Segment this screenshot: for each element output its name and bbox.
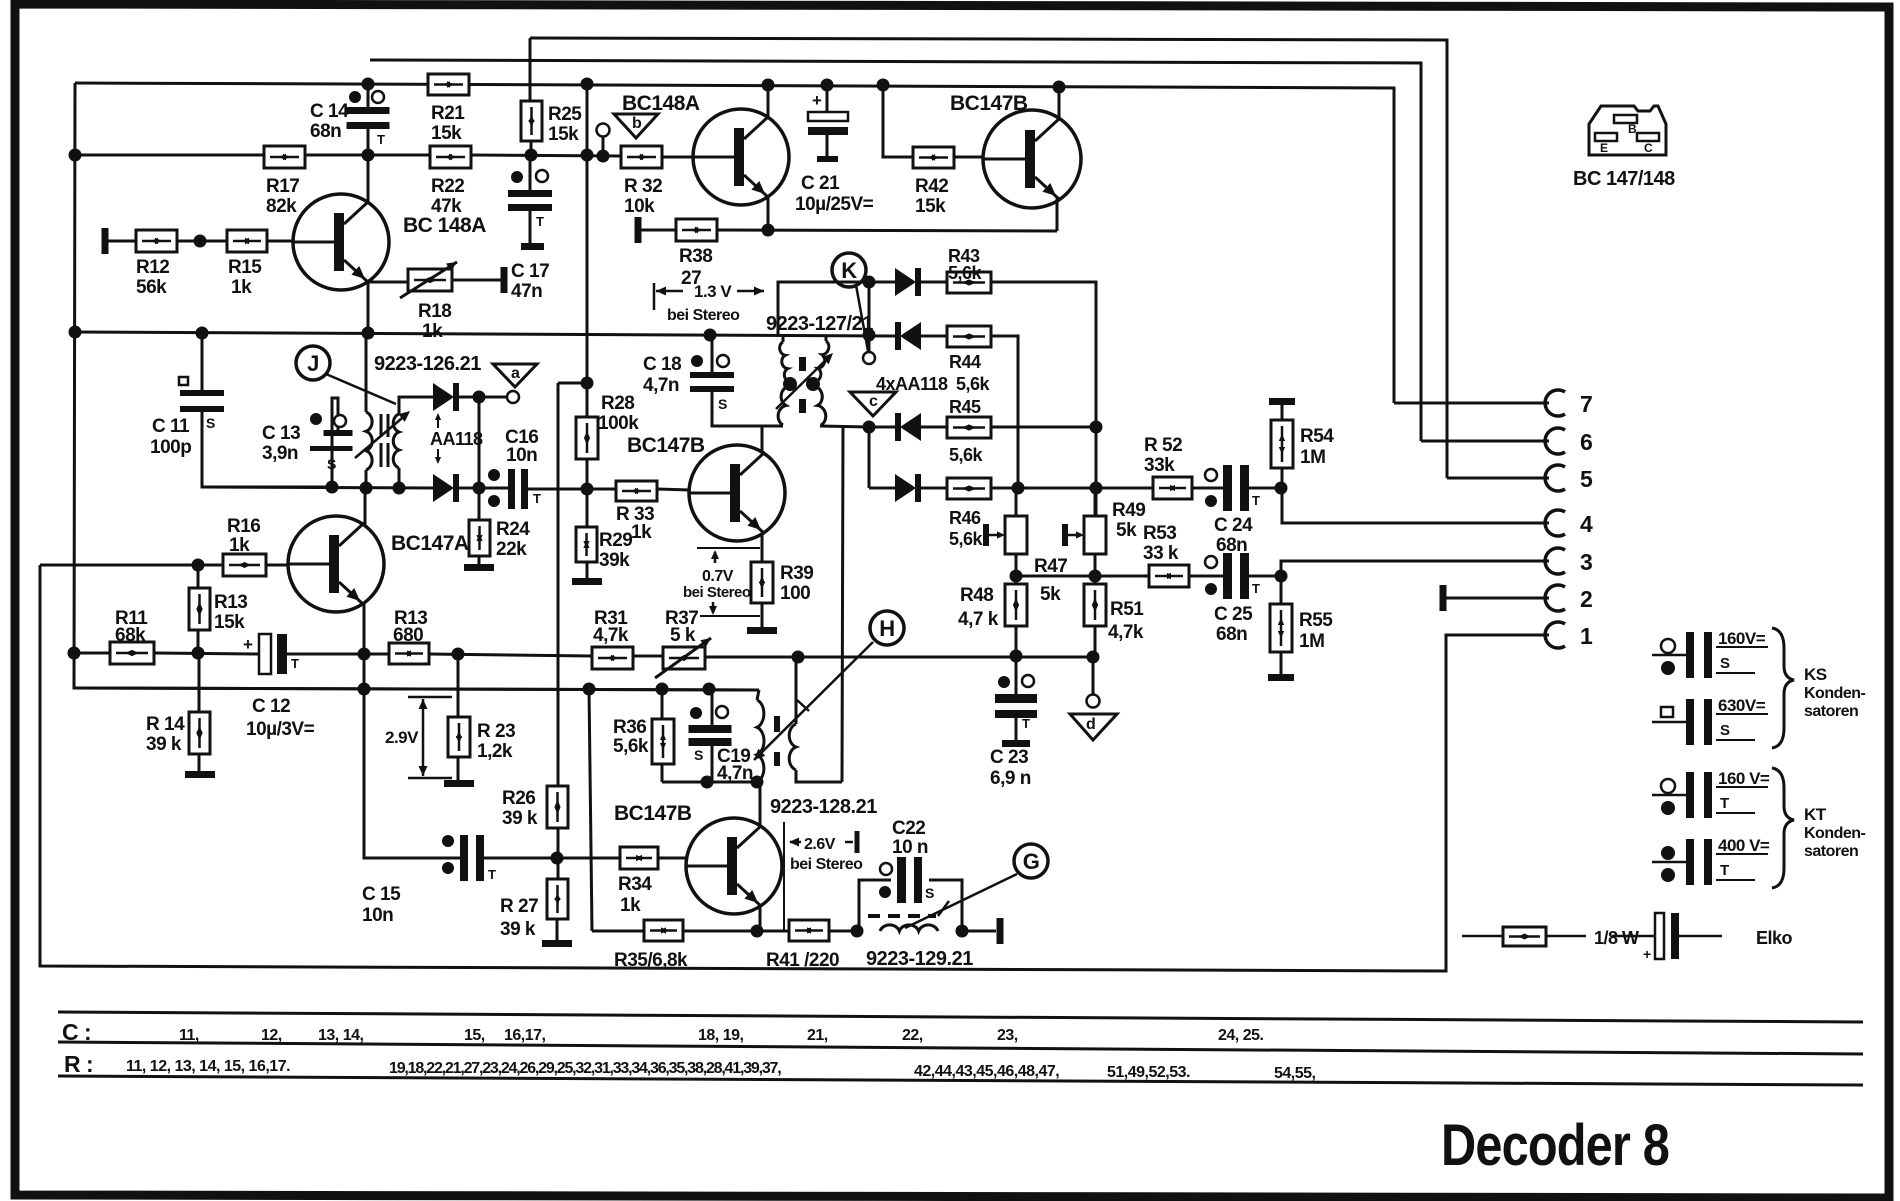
svg-text:19,18,22,21,27,23,24,26,29,25,: 19,18,22,21,27,23,24,26,29,25,32,31,33,3…	[389, 1060, 781, 1077]
resistor R26	[547, 786, 568, 828]
svg-text:T: T	[1720, 795, 1729, 812]
wire R52 to C24	[1192, 487, 1223, 490]
svg-text:S: S	[694, 747, 703, 763]
svg-text:22k: 22k	[496, 539, 527, 560]
wire R43 to x1096	[991, 282, 1096, 516]
svg-text:5,6k: 5,6k	[613, 736, 649, 757]
wire x589 down to R35 line	[589, 689, 592, 931]
wire C14 top stub	[367, 84, 370, 107]
wire C25 to junction	[1249, 575, 1282, 578]
svg-text:6: 6	[1580, 429, 1592, 455]
wire R23 top stub	[457, 654, 460, 717]
measure 0.7V top tick	[697, 547, 760, 549]
resistor R21	[428, 74, 469, 95]
node junction D1 output	[473, 391, 486, 404]
wire d terminal stub	[1092, 657, 1095, 695]
terminal circle a	[507, 391, 519, 403]
svg-text:21,: 21,	[807, 1027, 828, 1044]
svg-text:R29: R29	[599, 530, 632, 551]
svg-text:2.9V: 2.9V	[385, 728, 419, 747]
diode AA118 top D1	[433, 383, 454, 411]
node junction R43/R45	[1090, 421, 1103, 434]
ground below R23	[444, 780, 474, 787]
svg-text:R34: R34	[618, 874, 652, 895]
node junction R16/R13	[192, 559, 205, 572]
wire R48 bottom stub	[1015, 626, 1018, 656]
ground below R55	[1268, 674, 1294, 681]
wire R47 bottom	[1015, 554, 1018, 584]
circle letter K	[832, 253, 866, 287]
C15 polarity dots	[442, 835, 454, 847]
wire line655 segment3	[287, 653, 389, 656]
resistor R41	[789, 920, 829, 941]
svg-text:5,6k: 5,6k	[949, 445, 984, 465]
svg-text:5k: 5k	[1116, 520, 1137, 541]
diode D44	[895, 322, 901, 350]
svg-text:15k: 15k	[214, 612, 245, 633]
R47 wiper bar	[983, 524, 989, 546]
node junction y333 left rail	[69, 149, 82, 162]
wire D45 to R45	[921, 426, 947, 429]
svg-text:7: 7	[1580, 391, 1592, 417]
measure 2.6V arrow	[790, 841, 801, 844]
wire emitter x364 down to C15	[364, 654, 460, 858]
wire R29 to ground	[586, 562, 589, 578]
terminal bar R38 input	[635, 217, 642, 243]
transformer 128 right winding	[789, 724, 796, 770]
wire BC147A emitter down to line655	[363, 603, 366, 655]
svg-text:R 32: R 32	[624, 176, 662, 197]
svg-text:T: T	[536, 214, 544, 229]
svg-text:R16: R16	[227, 516, 260, 537]
svg-text:C :: C :	[62, 1019, 91, 1045]
circle letter J	[296, 346, 330, 380]
svg-text:C 14: C 14	[310, 101, 349, 122]
C23 polarity dot	[998, 676, 1010, 688]
diode D45	[895, 413, 901, 441]
svg-text:R22: R22	[431, 176, 464, 197]
svg-text:R51: R51	[1110, 599, 1144, 620]
wire C16 to R33	[528, 488, 616, 491]
wire D1 to node	[459, 396, 484, 399]
C17 polarity dot	[511, 171, 523, 183]
wire R55 to ground	[1280, 652, 1283, 674]
C23 polarity circle	[1022, 675, 1034, 687]
svg-text:11, 12, 13, 14, 15, 16,17.: 11, 12, 13, 14, 15, 16,17.	[126, 1058, 290, 1075]
svg-text:T: T	[1720, 862, 1729, 879]
node junction x1096 line	[1090, 482, 1103, 495]
R54 top terminal bar	[1269, 398, 1295, 405]
measure 2.6V vertical ref	[783, 822, 785, 931]
node junction R47-R49 to R53 line	[1095, 575, 1149, 578]
wire y85 to R42 branch	[883, 85, 913, 157]
node junction 126/line4	[360, 482, 373, 495]
measure 1.3V tick	[653, 283, 656, 310]
node junction y335 x869	[863, 329, 876, 342]
node junction C13/line4	[326, 481, 339, 494]
wire top rail y38 from R25 to right corner	[530, 38, 1447, 478]
svg-text:R12: R12	[136, 257, 169, 278]
node junction C11 top	[196, 327, 209, 340]
wire R25 top lead from y38 corner	[529, 38, 532, 101]
resistor R48	[1005, 584, 1027, 626]
svg-text:39 k: 39 k	[502, 808, 538, 829]
svg-text:82k: 82k	[266, 196, 297, 217]
svg-text:C 21: C 21	[801, 173, 840, 194]
circle letter G	[1014, 844, 1048, 878]
svg-text:13, 14,: 13, 14,	[318, 1027, 363, 1044]
resistor R29	[576, 527, 597, 562]
wire R27 ground stub	[556, 919, 559, 940]
svg-text:1k: 1k	[631, 522, 652, 543]
transistor BC147A	[288, 516, 384, 612]
wire R16 to BC147A base	[266, 564, 290, 567]
126 tuning arrow	[355, 413, 408, 458]
svg-text:J: J	[307, 351, 319, 376]
wire R36/C19 bottom link	[662, 781, 757, 784]
svg-text:R :: R :	[64, 1051, 93, 1077]
wire 126 right winding top to D1	[399, 397, 433, 414]
svg-text:R24: R24	[496, 519, 530, 540]
C13 polarity circle	[334, 415, 346, 427]
wire 127 lower-right to c node	[820, 426, 869, 427]
node junction x364/line689	[358, 683, 371, 696]
transformer 126 core bars	[380, 414, 383, 437]
svg-text:4xAA118: 4xAA118	[876, 374, 948, 394]
C25 polarity dot	[1205, 583, 1217, 595]
node junction collector y86	[1053, 81, 1066, 94]
wire emitter to R18	[368, 281, 408, 284]
svg-text:5,6k: 5,6k	[949, 529, 984, 549]
C24 polarity circle	[1205, 469, 1217, 481]
wire R38 to BC147B1 emitter	[717, 230, 1057, 231]
svg-text:680: 680	[393, 625, 423, 646]
J pointer line	[326, 374, 396, 404]
triangle marker b	[614, 114, 658, 138]
transistor BC148A (first)	[293, 194, 389, 290]
svg-text:R 23: R 23	[477, 721, 515, 742]
wire R35 to emitter node	[683, 930, 789, 933]
triangle marker c	[850, 392, 896, 416]
resistor R32	[621, 146, 662, 168]
svg-text:39 k: 39 k	[500, 919, 536, 940]
svg-text:2: 2	[1580, 586, 1592, 612]
svg-text:4: 4	[1580, 511, 1593, 537]
wire connector5	[1447, 477, 1549, 480]
transistor BC147B (top right)	[983, 110, 1081, 208]
transformer 127 lower-left winding	[778, 386, 789, 425]
svg-text:C 18: C 18	[643, 354, 681, 375]
node junction left rail/line655	[68, 647, 81, 660]
wire c node to D45	[869, 426, 895, 429]
svg-text:T: T	[291, 656, 299, 671]
svg-text:9223-129.21: 9223-129.21	[866, 948, 973, 970]
node junction x798/line655	[792, 651, 805, 664]
svg-text:18, 19,: 18, 19,	[698, 1027, 743, 1044]
svg-text:1,2k: 1,2k	[477, 741, 513, 762]
R47 wiper arrow	[989, 534, 1001, 537]
wire R25 to y155	[530, 141, 533, 156]
svg-text:R47: R47	[1034, 556, 1067, 577]
wire BC148A emitter down to y333	[367, 281, 370, 333]
C17 end bar	[521, 243, 544, 250]
svg-text:G: G	[1023, 849, 1040, 874]
wire R12 to R15	[177, 240, 227, 243]
svg-text:15k: 15k	[431, 123, 462, 144]
node junction y333 x75	[69, 326, 82, 339]
capacitor C25	[1223, 553, 1232, 599]
resistor R52	[1153, 477, 1192, 499]
legend resistor 1/8W	[1462, 935, 1503, 938]
diode D46	[895, 474, 916, 502]
node junction R36/line689	[656, 683, 669, 696]
svg-text:T: T	[1252, 493, 1260, 508]
resistor R24	[469, 520, 490, 556]
svg-text:4,7k: 4,7k	[1108, 622, 1144, 643]
legend brace KT	[1772, 768, 1794, 888]
node junction 129 left	[851, 925, 864, 938]
resistor R22	[430, 146, 471, 168]
wire R51 bottom stub	[1094, 626, 1097, 657]
svg-text:T: T	[533, 491, 541, 506]
svg-text:R44: R44	[949, 352, 981, 372]
svg-text:S: S	[206, 415, 215, 431]
legend capacitor 630V= S	[1652, 721, 1687, 724]
svg-text:C 11: C 11	[152, 416, 190, 437]
svg-text:100k: 100k	[598, 413, 639, 434]
resistor R44	[947, 326, 991, 347]
svg-text:1k: 1k	[422, 321, 443, 342]
node junction R49 bottom	[1089, 570, 1102, 583]
svg-text:R41 /220: R41 /220	[766, 950, 839, 971]
svg-text:bei Stereo: bei Stereo	[667, 307, 740, 324]
wire C19 bottom	[711, 746, 714, 782]
wire y155 line mid segment	[471, 155, 621, 156]
connector 2	[1545, 585, 1565, 611]
wire D44 to R44	[921, 335, 947, 338]
terminal bar connector2	[1440, 585, 1447, 611]
measure 0.7V up arrow	[714, 552, 717, 563]
svg-text:630V=: 630V=	[1718, 696, 1766, 715]
wire tbar to R38	[641, 229, 676, 232]
svg-text:Konden-: Konden-	[1804, 825, 1866, 842]
svg-text:S: S	[327, 456, 336, 472]
svg-text:4,7n: 4,7n	[643, 375, 679, 396]
svg-text:a: a	[511, 365, 520, 382]
wire R36 bottom	[661, 764, 664, 782]
wire R55 top stub	[1280, 576, 1283, 604]
capacitor C24	[1223, 465, 1232, 511]
svg-text:T: T	[1022, 716, 1030, 731]
node junction C14/y155	[362, 149, 375, 162]
C19 polarity dot	[690, 707, 702, 719]
ground below C23	[1002, 740, 1030, 747]
svg-text:68k: 68k	[115, 625, 146, 646]
resistor R36 stub	[661, 689, 664, 719]
svg-text:bei Stereo: bei Stereo	[683, 584, 751, 601]
node 127 center right	[806, 377, 820, 391]
svg-text:E: E	[1600, 141, 1608, 155]
129 dashed core	[868, 914, 936, 918]
svg-text:S: S	[1720, 655, 1730, 672]
C14 polarity circle	[372, 91, 384, 103]
resistor R55	[1270, 604, 1292, 652]
wire R41 to 129 box	[829, 930, 859, 933]
wire R42 to base	[954, 156, 984, 159]
transformer 128 left winding	[757, 700, 764, 782]
svg-text:R 27: R 27	[500, 896, 538, 917]
resistor R11	[110, 642, 154, 664]
svg-text:100: 100	[780, 583, 810, 604]
rail x586 below R28	[586, 459, 589, 527]
svg-text:C 17: C 17	[511, 261, 549, 282]
capacitor C14	[347, 107, 390, 114]
svg-text:5 k: 5 k	[670, 625, 696, 646]
svg-text:K: K	[841, 258, 857, 283]
wire x558 down to R26	[557, 383, 560, 786]
node 127 center left	[783, 377, 797, 391]
wire R23 ground stub	[457, 757, 460, 780]
resistor R37 (variable)	[663, 647, 705, 669]
svg-text:C 13: C 13	[262, 423, 300, 444]
svg-text:T: T	[488, 867, 496, 882]
resistor R16	[223, 554, 266, 576]
svg-text:Konden-: Konden-	[1804, 685, 1866, 702]
wire BC147A base line from x40	[40, 564, 223, 567]
node junction C25/R55	[1275, 570, 1288, 583]
svg-text:160V=: 160V=	[1718, 629, 1766, 648]
terminal bar right of R18	[501, 267, 508, 293]
connector 5	[1545, 465, 1565, 491]
svg-text:10n: 10n	[506, 445, 537, 466]
wire R49 top stub	[1094, 488, 1097, 516]
ground below R14	[185, 771, 215, 778]
legend capacitor 160 V= T	[1652, 794, 1687, 797]
wire C18 bottom to 127 winding	[712, 392, 783, 426]
transformer 127 lower-right winding	[814, 386, 826, 425]
wire D1 node down to line4	[478, 397, 481, 488]
resistor R18 (variable)	[408, 269, 452, 291]
node junction R13/line655	[192, 647, 205, 660]
connector 1	[1545, 622, 1565, 648]
node junction emitter/line655	[358, 648, 371, 661]
line4 wire segments	[202, 487, 433, 488]
transformer 127 core bars	[799, 357, 806, 371]
svg-text:S: S	[1720, 722, 1730, 739]
wire BC148A collector up to y155	[367, 155, 370, 203]
svg-text:R46: R46	[949, 508, 981, 528]
node junction x1018 line	[1012, 482, 1025, 495]
node junction collector y85	[762, 79, 775, 92]
svg-text:BC 147/148: BC 147/148	[1573, 168, 1675, 190]
node junction x586 y383	[581, 377, 594, 390]
wire R47 top stub	[1015, 488, 1018, 516]
svg-text:satoren: satoren	[1804, 843, 1858, 860]
wire R39 to ground	[761, 603, 764, 627]
G pointer tick	[938, 901, 949, 916]
wire C24 to junction	[1249, 487, 1282, 490]
node junction R48/line655	[1010, 650, 1023, 663]
ground below R29	[572, 578, 602, 585]
C24 polarity dot	[1205, 495, 1217, 507]
svg-text:11,: 11,	[179, 1027, 199, 1044]
svg-text:BC147B: BC147B	[614, 802, 692, 825]
capacitor C18	[690, 372, 734, 378]
wire BC147B3 collector stub	[759, 782, 762, 828]
svg-text:15,: 15,	[464, 1027, 485, 1044]
resistor R43	[947, 272, 991, 293]
wire D43 feed	[778, 282, 895, 336]
svg-text:4,7 k: 4,7 k	[958, 609, 999, 630]
svg-text:R36: R36	[613, 717, 646, 738]
H diagonal tick	[797, 700, 809, 711]
svg-text:10k: 10k	[624, 196, 655, 217]
table line 1	[58, 1012, 1863, 1022]
legend brace KS	[1772, 628, 1794, 748]
table line 3	[58, 1076, 1863, 1085]
node junction 128 winding bottom	[751, 776, 764, 789]
node junction R47/R49 link	[1010, 570, 1023, 583]
wire 129 to terminal	[962, 930, 996, 933]
wire R46 to R52	[991, 487, 1153, 490]
node junction x883	[877, 79, 890, 92]
capacitor C13	[324, 430, 353, 436]
wire R15 to BC148A base	[267, 240, 295, 243]
node junction emitter/R41 line	[751, 925, 764, 938]
ground below R27	[542, 940, 572, 947]
C14 polarity dot	[349, 91, 361, 103]
wire R54 bottom stub	[1281, 468, 1284, 488]
svg-text:R35/6,8k: R35/6,8k	[614, 950, 688, 971]
wire x869 D43 to D44	[868, 282, 871, 335]
node junction D2 output	[473, 482, 486, 495]
svg-text:b: b	[632, 115, 642, 132]
wire R14 stub	[198, 654, 201, 712]
svg-text:H: H	[879, 616, 894, 641]
wire main rail y85 from left corner to right corner	[75, 83, 1394, 403]
svg-text:T: T	[1252, 581, 1260, 596]
wire C11 top stub	[201, 333, 204, 390]
svg-text:R54: R54	[1300, 426, 1334, 447]
wire R24 to ground	[478, 556, 481, 564]
resistor R39	[751, 562, 773, 603]
transformer 126 right winding	[393, 414, 399, 468]
node junction rail/line4	[581, 483, 594, 496]
wire C11 bottom to line4	[202, 412, 330, 487]
wire R14 ground stub	[198, 754, 201, 771]
node junction R51/line655 end	[1087, 651, 1100, 664]
svg-text:BC147B: BC147B	[627, 434, 705, 457]
capacitor C23	[995, 694, 1037, 703]
svg-text:68n: 68n	[310, 121, 341, 142]
wire x843 down to 128 transformer	[842, 427, 843, 782]
resistor R15	[227, 230, 267, 252]
stub to x558	[558, 382, 587, 385]
wire input to R12	[108, 240, 136, 243]
node junction y155 x586	[581, 149, 594, 162]
capacitor C11	[180, 390, 224, 396]
wire y333 line (75,332)-(895,336)	[75, 332, 895, 336]
svg-text:12,: 12,	[261, 1027, 282, 1044]
wire line689	[73, 688, 759, 690]
wire BC147B2 collector stub	[761, 426, 764, 452]
wire y155 line right segment into BC148A base	[662, 156, 694, 159]
svg-text:3,9n: 3,9n	[262, 443, 298, 464]
wire C17 bottom stub	[529, 211, 532, 243]
rail x586 upper	[586, 84, 589, 417]
resistor R42	[913, 147, 954, 168]
wire junction to connector4	[1282, 488, 1549, 523]
